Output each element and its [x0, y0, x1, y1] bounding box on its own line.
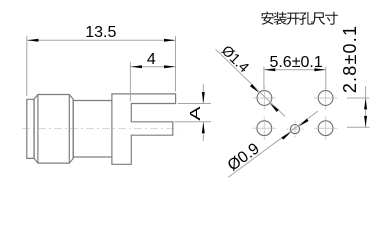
centerline axis left view	[22, 128, 178, 130]
hex nut flat line left inner	[37, 95, 39, 163]
hole center pin crosshair	[287, 121, 304, 138]
hex nut right edge	[72, 99, 74, 158]
extension line left for 13.5	[26, 36, 28, 96]
svg-text:Ø1.4: Ø1.4	[218, 43, 252, 76]
arrowhead 4 right	[164, 65, 175, 68]
extension line upper for A	[178, 103, 211, 105]
hole top-right circle	[318, 91, 333, 106]
hole top-left circle	[257, 91, 272, 106]
hole top-left crosshair	[253, 87, 276, 110]
dimension line 2.8	[365, 86, 367, 127]
cylindrical body top edge	[73, 100, 112, 102]
arrowhead dia0.9 upper-right pointing into circle	[299, 119, 309, 127]
arrowhead 13.5 left	[27, 39, 38, 42]
cylindrical body bottom edge	[73, 156, 112, 158]
PCB mount flange and legs F-profile	[112, 94, 176, 164]
hole bottom-left circle	[257, 121, 272, 136]
hex nut flat line right inner	[68, 95, 70, 163]
hole top-right crosshair	[314, 87, 337, 110]
dimension line 13.5	[27, 39, 176, 41]
arrowhead dia1.4 upper-left pointing into circle	[250, 84, 259, 93]
svg-text:5.6±0.1: 5.6±0.1	[269, 54, 322, 71]
extension line top for 2.8	[347, 97, 370, 99]
extension line right for 13.5 and 4	[175, 36, 177, 92]
svg-text:13.5: 13.5	[85, 24, 116, 41]
extension line left for 5.6	[263, 67, 265, 90]
hole bottom-left crosshair	[253, 117, 276, 140]
dimension line A lower shaft	[202, 122, 204, 141]
hex nut flat tangent line left	[33, 99, 35, 158]
leader line dia 1.4	[216, 49, 286, 116]
arrowhead 13.5 right	[164, 39, 175, 42]
arrowhead 4 left	[131, 65, 142, 68]
dimension line 4	[131, 66, 176, 68]
title text 安装开孔尺寸 (drawn as glyph paths)	[261, 12, 338, 25]
extension line right for 5.6	[325, 67, 327, 90]
leader line dia 0.9	[228, 111, 318, 178]
arrowhead 5.6 left	[264, 68, 275, 71]
svg-text:4: 4	[147, 51, 156, 68]
hole bottom-right crosshair	[314, 117, 337, 140]
connector coupling lip outline	[27, 99, 34, 158]
extension line bottom for 2.8	[347, 126, 370, 128]
connector hex nut body outline	[34, 95, 73, 164]
arrowhead 2.8 top pointing up	[364, 98, 367, 109]
svg-text:Ø0.9: Ø0.9	[225, 140, 263, 174]
extension line left for 4	[129, 62, 131, 102]
hole bottom-right circle	[318, 121, 333, 136]
arrowhead A top pointing down	[202, 92, 205, 103]
arrowhead 5.6 right	[314, 68, 325, 71]
hole center pin circle	[290, 125, 299, 134]
svg-text:2.8±0.1: 2.8±0.1	[340, 25, 360, 93]
extension line lower for A	[175, 121, 212, 123]
svg-text:A: A	[186, 106, 203, 121]
arrowhead A bottom pointing up	[202, 122, 205, 133]
arrowhead 2.8 bottom pointing down	[364, 116, 367, 127]
dimension line A upper shaft	[202, 84, 204, 104]
arrowhead dia1.4 lower-right pointing into circle	[270, 103, 279, 112]
dimension line 5.6	[264, 69, 326, 71]
arrowhead dia0.9 lower-left pointing into circle	[281, 132, 291, 140]
